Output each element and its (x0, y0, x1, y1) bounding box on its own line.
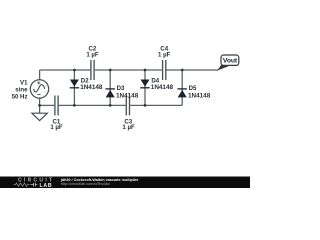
svg-text:1 µF: 1 µF (86, 52, 99, 59)
footer bar (0, 177, 250, 189)
wire: D5 branch top rail to bottom rail (181, 70, 183, 105)
svg-text:V1: V1 (20, 79, 28, 86)
wire: D2 branch top rail to bottom rail (73, 70, 75, 105)
svg-text:Vout: Vout (223, 57, 238, 64)
footer logo capacitor symbol (31, 183, 38, 187)
capacitor C1 (55, 96, 58, 116)
wire: bottom rail from V1 to C1 (40, 104, 55, 106)
node Vout flag (217, 55, 239, 71)
diode D3 (106, 89, 115, 98)
junction dot bottom rail at V1/ground (38, 104, 41, 107)
wire: D3 branch top rail to bottom rail (109, 70, 111, 105)
junction dot top rail at D4 (144, 69, 147, 72)
footer logo resistor zigzag (14, 183, 30, 186)
junction dot top rail at D2 (73, 69, 76, 72)
wire: top rail from C2 to C4 (95, 69, 162, 71)
junction dot top rail at D5 (181, 69, 184, 72)
diode D5 (178, 89, 187, 98)
svg-text:D5: D5 (189, 85, 197, 92)
wire: bottom rail from C1 to C3 (59, 104, 126, 106)
svg-text:50 Hz: 50 Hz (12, 94, 28, 101)
svg-text:1N4148: 1N4148 (116, 93, 139, 100)
svg-text:LAB: LAB (40, 183, 53, 188)
wire: D4 branch top rail to bottom rail (144, 70, 146, 105)
svg-text:1N4148: 1N4148 (188, 93, 211, 100)
wire: ground stub (39, 105, 41, 113)
svg-text:1 µF: 1 µF (122, 124, 135, 131)
svg-text:http://circuitlab.com/c/9hu3bz: http://circuitlab.com/c/9hu3bz (61, 182, 110, 186)
wire: V1 bottom riser (39, 98, 41, 106)
svg-text:1 µF: 1 µF (50, 124, 63, 131)
capacitor C4 (163, 60, 166, 80)
junction dot top rail at D3 (109, 69, 112, 72)
svg-text:1 µF: 1 µF (158, 52, 171, 59)
svg-text:sine: sine (15, 87, 28, 94)
capacitor C3 (126, 96, 129, 116)
svg-text:1N4148: 1N4148 (80, 84, 103, 91)
svg-text:D3: D3 (117, 85, 125, 92)
wire: top rail from V1 to C2 left plate (40, 69, 91, 71)
diode D2 (70, 80, 79, 88)
capacitor C2 (91, 60, 94, 80)
voltage source V1 (30, 80, 48, 98)
wire: bottom rail from C3 to D5 (130, 104, 182, 106)
junction dot bottom rail at D3 (109, 104, 112, 107)
wire: V1 top riser (39, 70, 41, 80)
diode D4 (140, 80, 149, 88)
junction dot bottom rail at D2 (73, 104, 76, 107)
ground (32, 113, 47, 120)
junction dot bottom rail at D4 (144, 104, 147, 107)
svg-text:1N4148: 1N4148 (151, 84, 174, 91)
wire: top rail from C4 to Vout (167, 69, 219, 71)
